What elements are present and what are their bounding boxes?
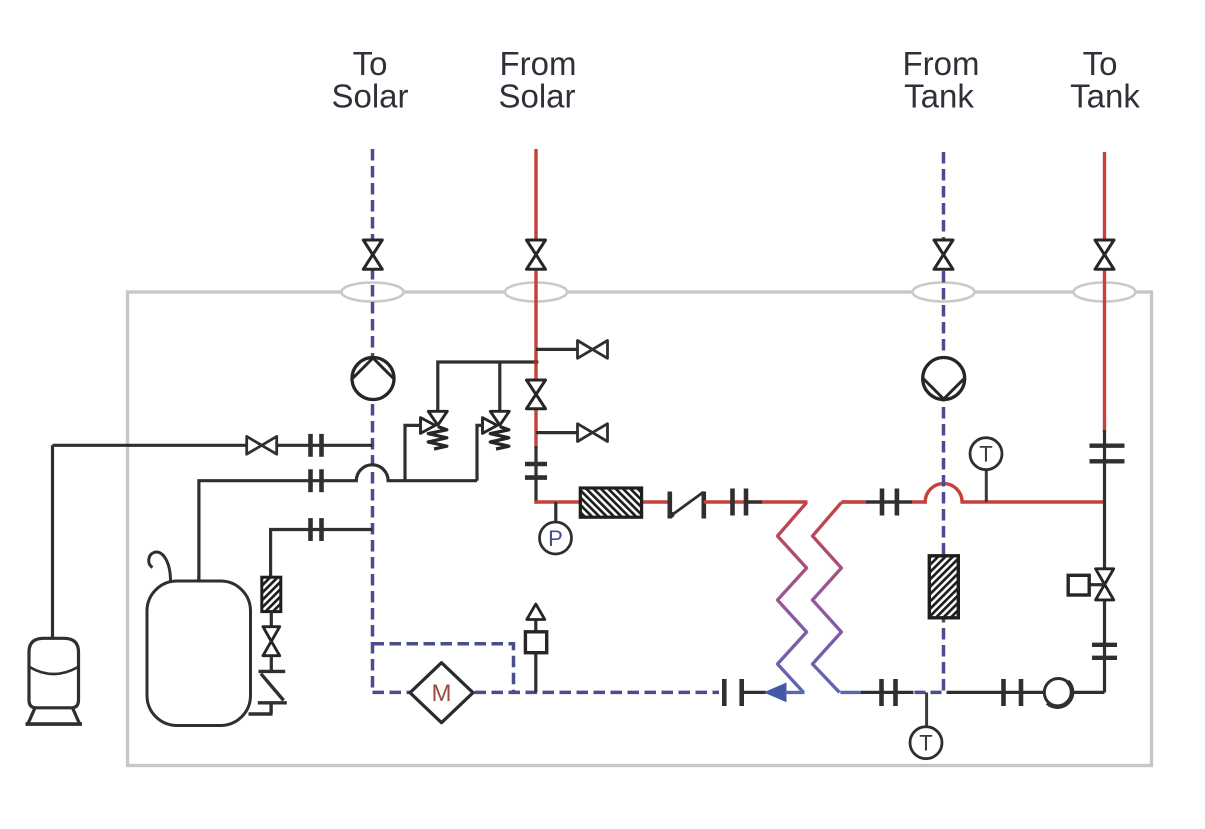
expansion tank [147,581,251,726]
union before HX (midline) [733,489,747,516]
label To Solar [331,45,408,115]
port grommet ellipse (To Solar) [342,283,404,302]
union right of HX (bottom) [882,679,896,706]
svg-text:From: From [500,45,577,82]
valve: hose-end valve on second branch [578,424,608,442]
pressure gauge P [540,522,572,554]
valve: To Tank top isolation valve [1095,240,1114,269]
svg-text:T: T [919,731,932,756]
relief valve RV2 (spring angle valve) [483,411,510,449]
wire: To Tank black upper segment [1103,430,1106,502]
wire: red HX supply stub [762,500,808,503]
label From Tank [903,45,980,115]
motorized valve body on To Tank run [1096,569,1114,600]
temperature gauge stub (bottom) [925,692,928,727]
wire: expansion tank neck [197,576,200,581]
expansion tank hook [149,552,171,581]
wire: From Solar lower black segment [534,446,537,504]
wire: row 1 to dashed main [277,444,373,447]
valve: fill valve [247,436,277,454]
svg-text:Solar: Solar [331,78,408,115]
wire: row 3 strainer header [271,530,373,578]
wire: black segment to union (bottom right of HX) [861,691,914,694]
union on bottom right line [1004,679,1022,706]
wire: branch to drain valve second right [536,431,578,434]
wire: bottom dashed return pipe (horizontal) [373,691,720,695]
valve: To Solar top isolation valve [363,240,382,269]
wire: RV2 outlet elbow [477,425,483,480]
wire: From Solar red riser [534,149,537,449]
wire: To Tank red riser [1103,152,1106,432]
filter F1 on midline (hatched) [580,488,641,517]
wire: blue stub right of HX bottom [840,691,862,694]
wire: fill line row 1 [53,444,248,447]
wire: row 2 expansion-tank header with crossover bump [199,465,477,581]
label From Solar [498,45,576,115]
wire: relief manifold top header [438,362,536,411]
wire: To Tank vertical run (inside) [1103,502,1106,692]
union on To Tank riser [1090,446,1125,462]
node: junction on red riser [533,359,538,364]
wire: strainer to drain valve [270,612,273,627]
wire: red midline right of HX [841,500,912,503]
temperature gauge T (top) [970,438,1002,470]
wire: make-up water drop pipe [51,445,54,639]
union right of HX (midline) [882,489,897,516]
svg-text:To: To [353,45,388,82]
wire: drain valve tail [270,656,273,672]
union before arrow (bottom) [724,679,741,706]
union on row 3 [311,518,322,541]
small supply tank [26,638,83,724]
union on To Tank run lower [1092,645,1117,658]
wire: bottom return line right section [947,691,1105,694]
port grommet ellipse (To Tank) [1074,283,1136,302]
wire: To Solar dashed supply pipe (vertical) [371,149,375,692]
wire: HX return black stub to arrow [742,691,766,694]
svg-text:M: M [432,680,452,707]
valve: isolation valve on From Solar riser [527,380,546,409]
valve: hose-end valve on top branch [578,341,608,359]
wire: red midline check valve to HX [704,500,762,503]
wire: blue dashes before From Tank junction [915,691,944,695]
valve: From Solar top isolation valve [527,240,546,269]
drain break symbol [249,671,287,714]
svg-text:Tank: Tank [1070,78,1140,115]
wire: black stub before HX supply [746,500,763,503]
wire: red elbow to filter (midline left end) [536,501,670,503]
svg-text:To: To [1083,45,1118,82]
wire: branch to vent valve top right [536,348,578,351]
wire: RV1 outlet elbow [405,425,421,480]
union on From Solar drop [525,464,547,478]
label To Tank [1070,45,1140,115]
temperature gauge stub (top) [985,470,988,502]
wire: From Tank dashed drop pipe [942,152,946,692]
svg-text:From: From [903,45,980,82]
flow device (small circle) on bottom right line [1044,679,1072,707]
wire: red midline crossover bump to To Tank [912,484,1105,502]
pressure gauge stub [554,502,557,523]
heat exchanger coil (right loop) [813,503,842,693]
filter F2 on From Tank drop (hatched) [929,556,958,618]
meter M diamond [410,663,473,723]
valve: drain isolation valve [263,627,280,656]
check valve on midline [670,492,704,519]
svg-text:Solar: Solar [498,78,575,115]
flow arrow (return into dashed line) [764,683,787,703]
union on row 2 [311,469,322,492]
relief valve RV1 (spring angle valve) [421,411,448,449]
pump P1 (To Solar) [352,358,394,400]
air vent on dashed return [534,620,537,693]
strainer S1 (hatched) [262,577,281,611]
enclosure box [128,292,1152,766]
temperature gauge T (bottom) [910,727,942,759]
motorized valve actuator square [1089,583,1104,586]
wire: dashed bypass loop around meter M [373,644,514,693]
svg-text:Tank: Tank [904,78,974,115]
svg-text:P: P [548,526,563,551]
pump P2 (From Tank) [923,358,965,400]
svg-text:T: T [979,442,992,467]
wire: second relief valve inlet drop [498,362,501,411]
port grommet ellipse (From Solar) [505,283,567,302]
union on row 1 [311,434,322,457]
heat exchanger coil (left loop) [778,503,807,693]
wire: blue stub arrow to HX left coil [785,691,805,694]
valve: From Tank top isolation valve [934,240,953,269]
port grommet ellipse (From Tank) [913,283,975,302]
